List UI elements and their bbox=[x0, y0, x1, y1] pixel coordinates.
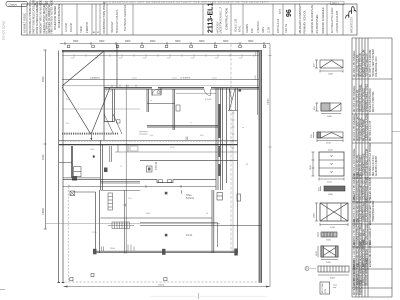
stair flight note bbox=[90, 78, 191, 80]
corridor south edge bbox=[115, 151, 238, 153]
svg-text:P.MARTIN: P.MARTIN bbox=[86, 22, 89, 33]
hall south edge line bbox=[101, 217, 213, 219]
svg-text:2113-EL1: 2113-EL1 bbox=[208, 3, 215, 33]
svg-text:2100: 2100 bbox=[328, 150, 334, 152]
client cell text bbox=[111, 4, 127, 33]
svg-text:13500: 13500 bbox=[268, 98, 270, 105]
room label entrance bbox=[205, 99, 212, 101]
left overall dimension line bbox=[42, 50, 47, 229]
svg-text:3600: 3600 bbox=[73, 40, 79, 43]
ramp long diagonal bbox=[62, 51, 104, 86]
svg-text:W4 2100 x 2100 OVERALL: W4 2100 x 2100 OVERALL bbox=[353, 147, 356, 176]
services shaft walls bbox=[216, 88, 223, 190]
svg-text:CILL LEVEL 1800 AFL: CILL LEVEL 1800 AFL bbox=[356, 88, 359, 112]
svg-text:FABRICATION: FABRICATION bbox=[359, 280, 362, 295]
stage lower edge line bbox=[140, 224, 261, 226]
title block cell dividers bbox=[27, 4, 343, 35]
door jamb ticks mid bbox=[186, 137, 188, 141]
store room walls bbox=[101, 141, 103, 190]
svg-text:THRESHOLD RAMP: THRESHOLD RAMP bbox=[372, 200, 375, 222]
svg-text:4200: 4200 bbox=[42, 154, 45, 160]
svg-text:REF SPEC K10/210: REF SPEC K10/210 bbox=[373, 155, 375, 176]
svg-text:COLOUR RAL 9010: COLOUR RAL 9010 bbox=[375, 56, 378, 77]
grid setting line lower bbox=[46, 223, 220, 225]
notes cell text block bbox=[29, 0, 61, 34]
svg-text:NTS: NTS bbox=[325, 288, 327, 293]
svg-text:AS PROPOSED: AS PROPOSED bbox=[315, 14, 319, 33]
boundary marker 3 bbox=[70, 278, 73, 281]
svg-text:WINDOW TYPES W1-W9 ADDED: WINDOW TYPES W1-W9 ADDED bbox=[40, 0, 43, 34]
partition wall lower bbox=[124, 190, 126, 254]
top dimension line with ticks bbox=[60, 42, 270, 45]
small box at top right bbox=[331, 1, 345, 5]
servery detail bbox=[110, 145, 138, 162]
svg-text:3600: 3600 bbox=[248, 40, 254, 43]
svg-text:LONDON EC2A 3PB: LONDON EC2A 3PB bbox=[336, 10, 339, 33]
schedule note box bbox=[320, 282, 337, 294]
svg-text:ESCAPE DOOR PANIC: ESCAPE DOOR PANIC bbox=[365, 197, 368, 222]
svg-text:FIXED LIGHT SEALED: FIXED LIGHT SEALED bbox=[362, 88, 365, 112]
svg-text:12.03.96: 12.03.96 bbox=[66, 22, 68, 32]
svg-text:PARTITIONS RELOCATED GRID 4: PARTITIONS RELOCATED GRID 4 bbox=[33, 0, 36, 34]
svg-text:13500: 13500 bbox=[42, 208, 45, 215]
equipment box bbox=[147, 166, 153, 172]
svg-text:FIRE STRATEGY NOTES ADDED: FIRE STRATEGY NOTES ADDED bbox=[51, 0, 54, 34]
svg-text:5x160=800: 5x160=800 bbox=[90, 78, 101, 80]
sheet number cell bbox=[279, 9, 293, 33]
svg-text:Oasys: Oasys bbox=[9, 2, 18, 6]
window type W9 glass blocks bbox=[305, 266, 349, 279]
svg-text:1800: 1800 bbox=[327, 116, 333, 118]
svg-text:REVISIONS AS SHOWN ON PLAN: REVISIONS AS SHOWN ON PLAN bbox=[29, 0, 32, 34]
svg-text:2700: 2700 bbox=[330, 227, 336, 229]
svg-text:CONSTRUCTION: CONSTRUCTION bbox=[225, 8, 229, 30]
svg-text:COLOUR RAL 7037: COLOUR RAL 7037 bbox=[362, 179, 365, 200]
svg-text:MILFIELDS COMMUNITY: MILFIELDS COMMUNITY bbox=[298, 3, 302, 33]
upper setting-out line bbox=[62, 55, 262, 57]
svg-text:SCALE 1:50: SCALE 1:50 bbox=[235, 18, 238, 32]
central corridor wall bbox=[59, 140, 238, 144]
shaft solid infill bbox=[218, 104, 220, 176]
svg-text:LAMINATED 6.4mm: LAMINATED 6.4mm bbox=[362, 201, 365, 222]
window type W4 elevation bbox=[310, 150, 344, 184]
svg-text:CL 01: CL 01 bbox=[186, 234, 193, 237]
svg-text:UNDERTAKEN W.E.L.P: UNDERTAKEN W.E.L.P bbox=[220, 6, 223, 33]
svg-text:1650: 1650 bbox=[326, 262, 332, 264]
date cell text bbox=[66, 22, 73, 32]
svg-text:LOUVRE EXTRACT VENT: LOUVRE EXTRACT VENT bbox=[356, 217, 359, 245]
svg-text:54.6m2: 54.6m2 bbox=[186, 197, 195, 200]
svg-text:96: 96 bbox=[286, 9, 293, 17]
bottom left margin dash bbox=[0, 289, 5, 291]
svg-text:wc: wc bbox=[150, 100, 152, 102]
checked cell text bbox=[81, 22, 89, 33]
lift box with cross bbox=[70, 191, 75, 196]
svg-text:REV 2: REV 2 bbox=[332, 2, 340, 5]
svg-text:ISSUED FOR REVIEW: ISSUED FOR REVIEW bbox=[59, 3, 61, 28]
internal wall row A bbox=[104, 88, 262, 89]
east boundary line bbox=[268, 44, 271, 287]
svg-text:DO NOT SCALE: DO NOT SCALE bbox=[2, 20, 6, 40]
svg-text:MASTIC POINTING: MASTIC POINTING bbox=[372, 91, 375, 112]
svg-text:OBSCURE GLASS PANEL: OBSCURE GLASS PANEL bbox=[359, 84, 362, 112]
svg-text:2100: 2100 bbox=[310, 164, 312, 170]
big room top edge bbox=[176, 92, 216, 94]
svg-text:INSULATED BACKING: INSULATED BACKING bbox=[369, 88, 372, 112]
south wall pier 3 bbox=[234, 249, 238, 256]
east external wall bbox=[259, 51, 262, 283]
svg-text:POWDER COATED ALUM: POWDER COATED ALUM bbox=[362, 50, 365, 77]
grid marker boxes bbox=[67, 45, 265, 48]
east wall top tick bbox=[256, 51, 257, 116]
svg-text:AS BUILT ISSUE: AS BUILT ISSUE bbox=[23, 13, 27, 33]
room label classroom bbox=[186, 234, 193, 237]
west stair treads bbox=[59, 162, 100, 178]
overall dimension line bottom bbox=[64, 285, 271, 288]
schedule table frame bbox=[352, 38, 392, 297]
column solid bbox=[104, 168, 108, 173]
east lobby box bbox=[217, 193, 223, 201]
boundary dashed line bbox=[65, 281, 260, 283]
svg-text:DOOR SCHEDULE AMENDED: DOOR SCHEDULE AMENDED bbox=[36, 1, 39, 33]
column C2 bbox=[165, 234, 168, 237]
svg-text:SOLID INSULATED PANEL: SOLID INSULATED PANEL bbox=[356, 171, 359, 200]
stair core wall bbox=[237, 88, 239, 253]
svg-text:ARCHITECTS: ARCHITECTS bbox=[351, 17, 354, 33]
svg-text:ST 03: ST 03 bbox=[205, 99, 212, 101]
svg-text:3600: 3600 bbox=[150, 40, 156, 43]
svg-text:SIDE HUNG CASEMENT: SIDE HUNG CASEMENT bbox=[359, 240, 362, 267]
short stair diagonals bbox=[104, 114, 122, 134]
scattered dim marks bbox=[66, 99, 249, 234]
window type W3 elevation bbox=[311, 132, 343, 145]
drawing title cell bbox=[298, 3, 325, 33]
svg-text:9450: 9450 bbox=[42, 76, 45, 82]
svg-text:2100: 2100 bbox=[326, 143, 332, 145]
status cell vertical text bbox=[102, 2, 106, 34]
svg-text:OBSCURE WIRED GLASS: OBSCURE WIRED GLASS bbox=[365, 258, 368, 286]
boundary marker 1 bbox=[91, 274, 94, 277]
svg-text:22 CHARLOTTE ROAD: 22 CHARLOTTE ROAD bbox=[331, 7, 334, 33]
svg-text:JOB No 2113: JOB No 2113 bbox=[277, 18, 280, 33]
hall label bbox=[155, 161, 158, 170]
svg-text:DG UNITS 6-12-6 ARGON: DG UNITS 6-12-6 ARGON bbox=[369, 49, 372, 77]
stair arrow centreline ticks bbox=[232, 113, 235, 148]
upper setting-out figures bbox=[71, 58, 243, 60]
svg-text:AT A1: AT A1 bbox=[239, 25, 242, 32]
ladder detail bbox=[108, 193, 113, 210]
schedule row texts bbox=[353, 49, 378, 295]
upper room dim text bbox=[255, 75, 257, 80]
east room wall bbox=[212, 190, 214, 253]
svg-text:PRESSED METAL FACE: PRESSED METAL FACE bbox=[359, 174, 362, 200]
svg-text:NOTE ALL DIMS CHECKED: NOTE ALL DIMS CHECKED bbox=[353, 266, 356, 295]
left margin vertical note bbox=[2, 20, 6, 40]
top external wall bbox=[62, 51, 262, 52]
west stair room wall bbox=[71, 146, 73, 178]
svg-text:16 RISERS: 16 RISERS bbox=[180, 78, 191, 80]
svg-text:ALUM PPC FINISH: ALUM PPC FINISH bbox=[375, 156, 378, 176]
svg-text:CLERESTOREY UNIT: CLERESTOREY UNIT bbox=[363, 262, 365, 286]
ramp edge hatched strip bbox=[62, 133, 118, 135]
svg-text:SPANDREL PANEL TYPE2: SPANDREL PANEL TYPE2 bbox=[365, 83, 368, 112]
svg-text:OPENING LIGHTS AS SHOWN: OPENING LIGHTS AS SHOWN bbox=[369, 143, 372, 176]
faint lower dim line bbox=[150, 295, 267, 297]
window type W7 louvre bbox=[318, 232, 337, 242]
svg-text:3600: 3600 bbox=[175, 40, 181, 43]
svg-text:CONSTRUCTION ISSUE: CONSTRUCTION ISSUE bbox=[102, 2, 106, 34]
entrance lobby walls bbox=[104, 85, 126, 254]
wall setting line bbox=[117, 84, 262, 86]
svg-text:CILL LEVEL 1800 AFL: CILL LEVEL 1800 AFL bbox=[356, 53, 359, 77]
window type W5 solid panel bbox=[319, 186, 346, 196]
landing door box bbox=[239, 89, 242, 91]
svg-text:THIS DRAWING MAY NOT BE REPROD: THIS DRAWING MAY NOT BE REPRODUCED WITHO… bbox=[103, 0, 268, 4]
svg-text:KEY PLAN: KEY PLAN bbox=[321, 283, 324, 293]
corridor stub lines bbox=[139, 132, 148, 134]
svg-text:2400: 2400 bbox=[328, 74, 334, 76]
svg-text:HARDWOOD SUBFRAME: HARDWOOD SUBFRAME bbox=[362, 239, 365, 267]
wc room walls bbox=[147, 88, 175, 130]
svg-text:3600: 3600 bbox=[223, 40, 229, 43]
top border hairline bbox=[31, 1, 330, 3]
lobby walls bbox=[96, 190, 100, 253]
svg-text:JRB: JRB bbox=[251, 28, 254, 33]
window type W8 elevation bbox=[316, 246, 338, 264]
lobby wall top bbox=[75, 191, 96, 193]
ramp V right arm bbox=[91, 88, 110, 135]
threshold hatch bbox=[105, 89, 113, 93]
svg-text:IRONMONGERY SET 4: IRONMONGERY SET 4 bbox=[370, 197, 372, 222]
ramp V left arm bbox=[62, 87, 91, 135]
window type W2 elevation bbox=[314, 103, 341, 118]
column C3 cross bbox=[124, 204, 127, 207]
svg-text:CLERESTOREY GLAZING: CLERESTOREY GLAZING bbox=[365, 113, 368, 141]
architect logo cell bbox=[346, 7, 356, 33]
south wall door ticks bbox=[128, 245, 134, 252]
south entrance ticks bbox=[102, 247, 116, 252]
svg-text:CURTAIN WALL SYSTEM: CURTAIN WALL SYSTEM bbox=[365, 149, 368, 176]
lobby south line bbox=[101, 190, 141, 192]
hall south secondary line bbox=[63, 185, 216, 194]
drawing number cell bbox=[208, 3, 229, 34]
scale cell bbox=[235, 18, 242, 32]
svg-text:PRIMARY SCHOOL: PRIMARY SCHOOL bbox=[303, 10, 307, 34]
right margin tick 1 bbox=[392, 131, 400, 133]
svg-text:CHECKED: CHECKED bbox=[257, 21, 260, 33]
job cell bbox=[277, 18, 280, 33]
plan left edge wall bbox=[58, 51, 65, 283]
wc partition wall bbox=[147, 126, 218, 127]
hall south wall with entry recess bbox=[63, 180, 216, 183]
svg-text:DATE: DATE bbox=[262, 26, 265, 33]
svg-text:TRN 02: TRN 02 bbox=[155, 161, 158, 170]
svg-text:MILL FINISH FRAME: MILL FINISH FRAME bbox=[362, 119, 365, 141]
grid dashed line west bbox=[67, 187, 69, 283]
column at stair bbox=[72, 176, 77, 181]
svg-text:TOP HUNG FANLIGHT: TOP HUNG FANLIGHT bbox=[365, 52, 368, 77]
top centered micro text bbox=[103, 0, 268, 4]
svg-text:GROUND FLOOR PLAN: GROUND FLOOR PLAN bbox=[310, 5, 314, 34]
south wall pier 2 bbox=[162, 249, 166, 255]
svg-text:1100: 1100 bbox=[316, 251, 318, 256]
scale note bbox=[197, 293, 199, 299]
door swing room 2 bbox=[204, 89, 211, 96]
small column dot bbox=[93, 155, 95, 157]
svg-text:W1 2400 x 450 OVERALL: W1 2400 x 450 OVERALL bbox=[353, 50, 356, 77]
svg-text:36000: 36000 bbox=[158, 285, 165, 287]
svg-text:W6 2700 x 1800 OVERALL: W6 2700 x 1800 OVERALL bbox=[353, 193, 356, 222]
hall north wall bbox=[140, 160, 238, 162]
svg-text:W3 2100 x 350 OVERALL: W3 2100 x 350 OVERALL bbox=[353, 114, 356, 141]
svg-text:TECHNICAL SERVICES: TECHNICAL SERVICES bbox=[124, 4, 127, 31]
escalator shaft bbox=[228, 88, 238, 111]
top dimension figures bbox=[73, 40, 254, 43]
svg-text:ON SITE PRIOR TO: ON SITE PRIOR TO bbox=[357, 274, 359, 295]
stage edge line bbox=[140, 223, 218, 247]
grid dashed line bbox=[230, 44, 232, 253]
ramp direction arrow bbox=[90, 135, 92, 141]
wc internal partitions bbox=[147, 103, 175, 105]
svg-text:HACKNEY: HACKNEY bbox=[111, 21, 114, 33]
shaft side wall bbox=[226, 88, 228, 183]
svg-text:DRAWN: DRAWN bbox=[246, 24, 249, 33]
svg-text:HEAD LEVEL 2250 AFL: HEAD LEVEL 2250 AFL bbox=[359, 52, 362, 77]
column C1 bbox=[165, 192, 168, 195]
landing double line bbox=[101, 181, 141, 183]
approval stamp box top-left bbox=[6, 1, 33, 6]
svg-text:3600: 3600 bbox=[199, 40, 205, 43]
sheet size note bbox=[34, 3, 49, 7]
svg-text:REF SPEC L10/115: REF SPEC L10/115 bbox=[370, 120, 372, 141]
ramp landing verticals bbox=[104, 44, 117, 141]
svg-text:3No EQUAL PANES: 3No EQUAL PANES bbox=[359, 155, 362, 176]
east wall box bbox=[237, 194, 241, 201]
revision cell vertical text bbox=[23, 13, 27, 33]
svg-text:SLIDING DOOR SET: SLIDING DOOR SET bbox=[360, 200, 362, 222]
upper floor edge labels bbox=[92, 77, 217, 79]
boundary marker 2 bbox=[164, 278, 167, 281]
svg-text:2100: 2100 bbox=[327, 182, 333, 184]
schedule row separators bbox=[352, 79, 392, 288]
narrow rev letter cells bbox=[94, 31, 100, 33]
window type W1 elevation bbox=[314, 60, 344, 76]
south wall pier 1 bbox=[93, 249, 97, 255]
svg-text:T.McD: T.McD bbox=[81, 26, 83, 33]
svg-text:11.95: 11.95 bbox=[268, 27, 271, 33]
svg-text:EASED AND ADJUSTED: EASED AND ADJUSTED bbox=[369, 241, 372, 267]
svg-text:1950: 1950 bbox=[328, 194, 334, 196]
room label hall bbox=[186, 194, 195, 200]
setting ticks top bbox=[74, 54, 254, 57]
svg-text:1800: 1800 bbox=[314, 212, 316, 218]
upper floor edge line bbox=[62, 79, 262, 81]
title block outline bbox=[22, 4, 358, 35]
window type W6 elevation bbox=[314, 203, 349, 229]
kitchen counter with sink bbox=[152, 90, 180, 112]
svg-text:DRG No: DRG No bbox=[285, 23, 288, 33]
drawn cell bbox=[246, 21, 271, 33]
practice cell bbox=[331, 7, 339, 33]
svg-text:3000: 3000 bbox=[330, 277, 336, 279]
svg-text:SHT: SHT bbox=[279, 9, 282, 14]
svg-text:HIGH LEVEL VENT UNIT: HIGH LEVEL VENT UNIT bbox=[357, 114, 359, 141]
grid line secondary bbox=[232, 111, 234, 254]
svg-text:3600: 3600 bbox=[99, 40, 105, 43]
svg-text:2100: 2100 bbox=[110, 248, 116, 250]
svg-text:WINDOW SCHEDULE: WINDOW SCHEDULE bbox=[321, 7, 325, 33]
door swing room 1 bbox=[152, 89, 158, 96]
svg-text:SEALED ALL ROUND: SEALED ALL ROUND bbox=[369, 177, 372, 200]
svg-text:3600: 3600 bbox=[125, 40, 131, 43]
south wall bbox=[93, 251, 238, 252]
mid landing line bbox=[62, 85, 117, 87]
svg-text:REF SPEC U10/320: REF SPEC U10/320 bbox=[366, 223, 368, 245]
svg-text:BOROUGH COUNCIL: BOROUGH COUNCIL bbox=[116, 9, 119, 33]
svg-text:TOP HUNG OPENING: TOP HUNG OPENING bbox=[360, 118, 362, 141]
dado line bbox=[62, 108, 140, 110]
svg-text:TRICKLE VENTS IN HEAD: TRICKLE VENTS IN HEAD bbox=[372, 49, 375, 77]
hatched beam strip bbox=[108, 222, 134, 229]
svg-text:1500: 1500 bbox=[326, 240, 332, 242]
svg-text:ISSUED FOR TENDER: ISSUED FOR TENDER bbox=[55, 6, 57, 30]
svg-text:W2 1800 x 450 OVERALL: W2 1800 x 450 OVERALL bbox=[353, 85, 356, 112]
svg-text:TOUGHENED LOW E: TOUGHENED LOW E bbox=[363, 153, 365, 176]
wall dim ticks bbox=[112, 85, 136, 88]
svg-text:04.02.96: 04.02.96 bbox=[71, 22, 73, 32]
svg-text:FIXED PANEL FRAME: FIXED PANEL FRAME bbox=[365, 176, 368, 200]
